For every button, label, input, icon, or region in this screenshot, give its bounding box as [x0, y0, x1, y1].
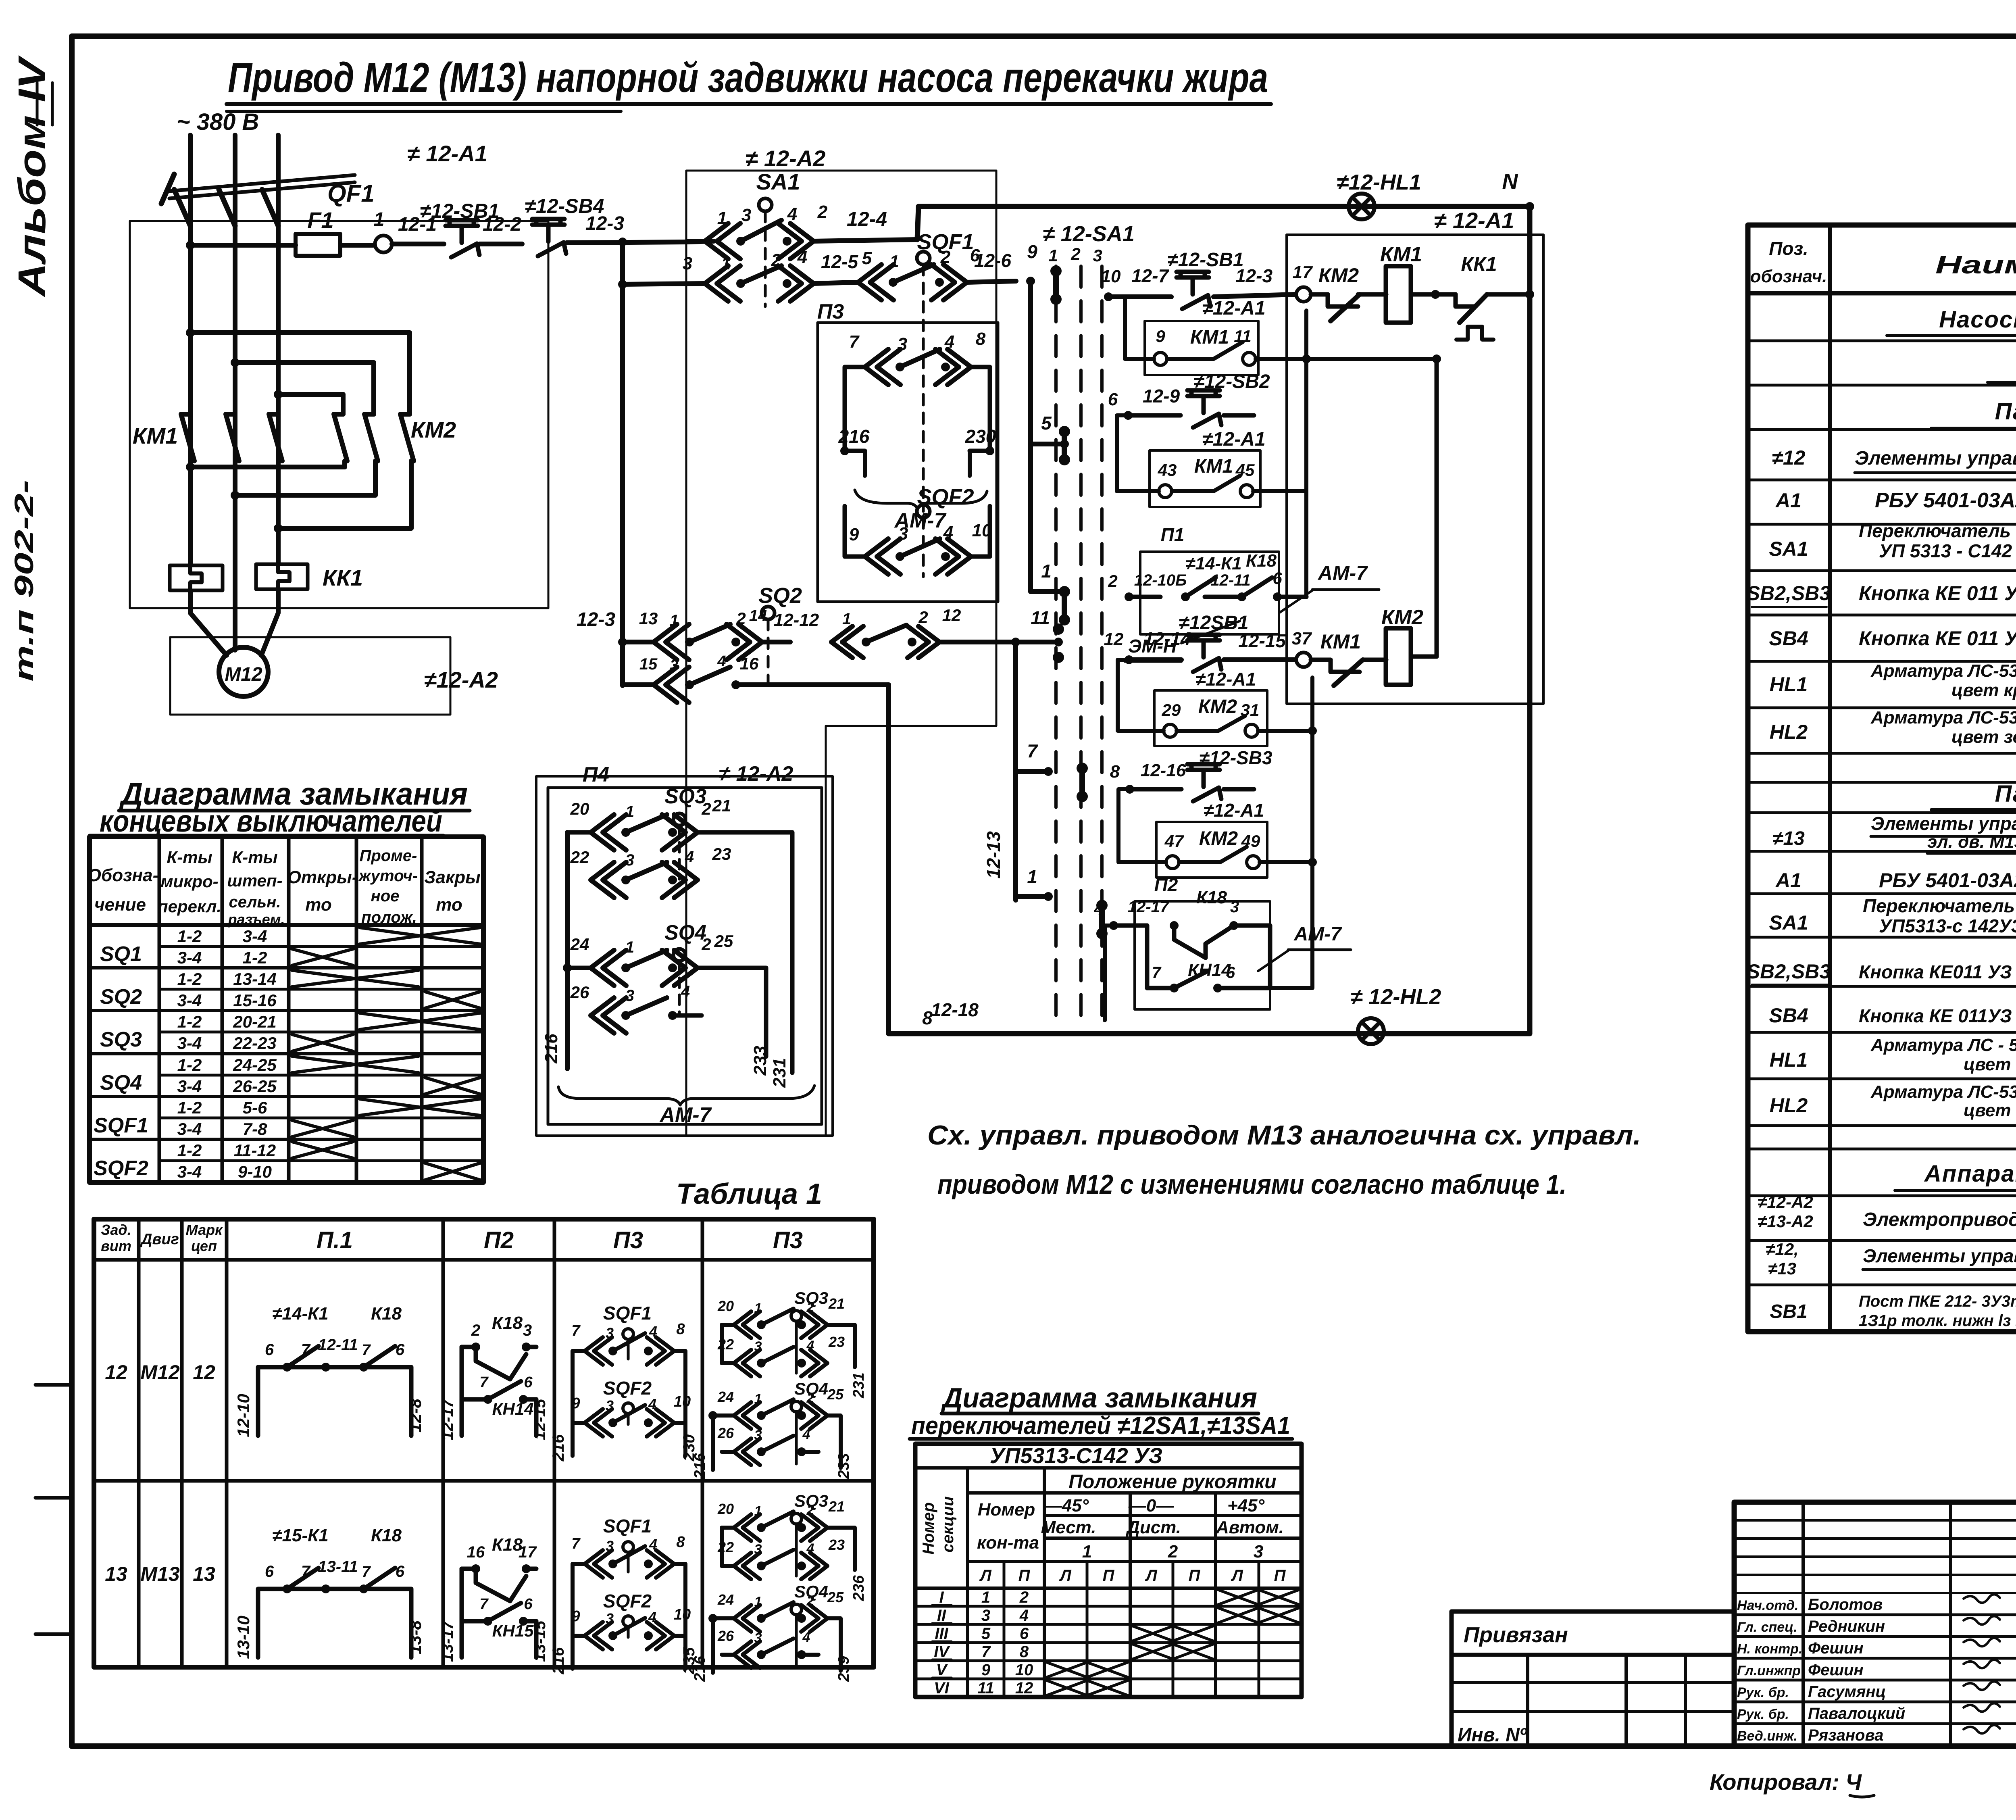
svg-text:2: 2	[1108, 571, 1117, 590]
svg-text:SQF2: SQF2	[603, 1378, 652, 1399]
svg-text:3-4: 3-4	[177, 1120, 202, 1138]
SA1 cam junction pair row4	[1053, 623, 1064, 663]
pushbutton SB1 (row 12-14)	[1179, 612, 1248, 672]
svg-text:П2: П2	[1154, 874, 1178, 895]
lamp HL2	[1351, 985, 1441, 1044]
svg-text:12-3: 12-3	[1235, 265, 1272, 286]
svg-text:9: 9	[1027, 241, 1037, 262]
П4 contact row 26	[570, 983, 702, 1033]
row А1 РБУ (2)	[1775, 869, 2016, 892]
fragment П2 row M13	[439, 1535, 549, 1662]
fragment П3 row M12	[550, 1303, 698, 1461]
svg-text:2: 2	[736, 609, 746, 628]
svg-text:7: 7	[301, 1563, 311, 1580]
row SB1 пост	[1770, 1293, 2016, 1330]
svg-text:П: П	[1018, 1567, 1031, 1584]
svg-text:3: 3	[754, 1542, 762, 1557]
limit switch SQF2 pin	[917, 485, 974, 577]
node N label	[1502, 169, 1535, 211]
svg-text:2: 2	[817, 202, 828, 222]
svg-text:микро-: микро-	[160, 872, 218, 891]
svg-text:РБУ 5401-03А2Ж: РБУ 5401-03А2Ж	[1875, 489, 2016, 512]
svg-text:КМ1: КМ1	[133, 423, 178, 448]
svg-text:1-2: 1-2	[243, 948, 267, 967]
selector ≠12-SA1 label	[1043, 222, 1135, 265]
label Таблица 1	[676, 1178, 822, 1210]
svg-text:КМ2: КМ2	[411, 417, 456, 442]
svg-text:216: 216	[691, 1655, 708, 1682]
svg-text:7: 7	[571, 1535, 581, 1552]
svg-text:26: 26	[570, 983, 589, 1002]
svg-text:Л: Л	[1059, 1567, 1072, 1584]
svg-text:SQ4: SQ4	[100, 1071, 142, 1095]
svg-text:1: 1	[889, 252, 899, 271]
svg-text:23: 23	[712, 844, 731, 863]
svg-text:216: 216	[550, 1434, 567, 1461]
aux contact box KM2 29-31	[1118, 660, 1312, 746]
svg-text:Рук. бр.: Рук. бр.	[1737, 1685, 1789, 1700]
limit switch table cross marks	[292, 928, 480, 1180]
thermal contact KK1	[1456, 253, 1534, 340]
svg-text:цеп: цеп	[191, 1238, 217, 1254]
node 1 (circle)	[374, 209, 392, 252]
svg-text:3: 3	[754, 1339, 762, 1354]
svg-text:12-10: 12-10	[234, 1394, 253, 1437]
svg-text:Закры: Закры	[424, 867, 481, 887]
svg-text:SA1: SA1	[1769, 538, 1808, 560]
wire 16 to bus	[886, 685, 891, 1034]
branch 1	[1031, 561, 1069, 596]
row 12-7: wire 10	[1101, 265, 1171, 301]
svg-text:SQF2: SQF2	[94, 1157, 148, 1180]
svg-text:3: 3	[898, 334, 907, 354]
П3 contact row 7-3-4-8	[845, 329, 990, 451]
row SB2,SB3 кнопка	[1747, 566, 2016, 607]
svg-text:Кнопка КЕ 011УЗ исполн. 2 толк: Кнопка КЕ 011УЗ исполн. 2 толк. красн.	[1859, 1005, 2016, 1026]
contactor KM2 main contacts	[334, 414, 456, 461]
box П4 inner	[548, 788, 822, 1124]
svg-text:SQ4: SQ4	[664, 921, 706, 944]
margin label: Альбом IV	[10, 55, 54, 298]
component table header	[1750, 238, 2016, 286]
svg-text:Насосная станция: Насосная станция	[1939, 306, 2016, 333]
svg-text:12: 12	[193, 1361, 215, 1384]
aux contact box KM2 47-49	[1118, 726, 1317, 878]
svg-text:КМ1: КМ1	[1190, 327, 1229, 348]
svg-text:2: 2	[806, 1300, 814, 1315]
svg-text:4: 4	[802, 1630, 810, 1645]
svg-text:1: 1	[1041, 561, 1052, 582]
svg-text:3: 3	[606, 1538, 614, 1554]
label АМ-7 (П2) leader	[1258, 924, 1351, 971]
svg-text:12-12: 12-12	[774, 610, 819, 630]
pushbutton contact ≠12-SB1	[420, 200, 500, 257]
svg-text:≠14-К1: ≠14-К1	[272, 1304, 328, 1324]
svg-text:12-15: 12-15	[1238, 630, 1286, 651]
svg-text:Гл.инжпр: Гл.инжпр	[1737, 1663, 1801, 1678]
svg-text:7: 7	[1027, 740, 1038, 761]
svg-text:6: 6	[1020, 1625, 1029, 1643]
svg-text:12-11: 12-11	[1210, 571, 1250, 589]
section Панель 7	[1931, 781, 2016, 810]
svg-text:10: 10	[1015, 1661, 1033, 1679]
box П4 outer Ф12-А2	[536, 762, 833, 1136]
limit switch SQF1 pin	[917, 230, 974, 511]
selector switch SA1 pin	[756, 169, 800, 306]
svg-text:УП5313-с 142УЗ рев.: УП5313-с 142УЗ рев.	[1879, 915, 2016, 936]
svg-text:разъем.: разъем.	[228, 911, 285, 928]
svg-text:SB2,SB3: SB2,SB3	[1747, 960, 1831, 983]
svg-text:II: II	[937, 1607, 946, 1624]
svg-text:4: 4	[806, 1338, 814, 1353]
svg-text:≠12-А1: ≠12-А1	[1195, 669, 1256, 690]
svg-text:21: 21	[712, 796, 731, 815]
АМ-7 brace under П4	[558, 1086, 814, 1127]
wire 12-3 right	[1214, 265, 1295, 297]
svg-text:2: 2	[806, 1593, 814, 1609]
svg-text:1-2: 1-2	[177, 927, 202, 946]
svg-text:239: 239	[835, 1656, 852, 1682]
wire: KM2 outputs join phases	[186, 461, 411, 533]
svg-text:К-ты: К-ты	[232, 848, 277, 867]
svg-text:8: 8	[676, 1534, 685, 1551]
table 1 grid	[94, 1219, 874, 1667]
SA1 cam junction pair row1	[1050, 265, 1062, 305]
svg-text:12-15: 12-15	[531, 1399, 549, 1440]
svg-text:≠12-А1: ≠12-А1	[1202, 429, 1265, 450]
svg-text:Электропривод задвижки ~380В: Электропривод задвижки ~380В	[1863, 1209, 2016, 1230]
svg-text:SQ2: SQ2	[100, 985, 142, 1009]
svg-text:20: 20	[570, 799, 589, 818]
svg-text:3: 3	[625, 851, 634, 869]
svg-text:11-12: 11-12	[234, 1141, 276, 1160]
wire П2 to bottom bus	[1270, 858, 1317, 988]
svg-text:7: 7	[1152, 964, 1162, 982]
row А1 РБУ	[1775, 489, 2016, 512]
svg-text:23: 23	[828, 1334, 845, 1350]
svg-text:SQ3: SQ3	[100, 1028, 142, 1051]
svg-text:приводом М12 с изменениями сог: приводом М12 с изменениями согласно табл…	[937, 1169, 1566, 1200]
svg-text:Вед.инж.: Вед.инж.	[1737, 1728, 1797, 1744]
contactor KM1 main contacts	[133, 245, 282, 528]
svg-text:1-2: 1-2	[177, 1055, 202, 1074]
svg-text:12-2: 12-2	[483, 214, 521, 235]
svg-text:то: то	[305, 895, 331, 915]
svg-text:12-17: 12-17	[439, 1398, 456, 1440]
SA1 cam junction pair row6	[1096, 900, 1108, 939]
svg-text:20-21: 20-21	[233, 1012, 276, 1031]
svg-text:КМ2: КМ2	[1198, 696, 1237, 717]
svg-text:12: 12	[1104, 630, 1124, 649]
svg-text:SA1: SA1	[756, 169, 800, 194]
svg-text:25: 25	[827, 1386, 844, 1403]
svg-text:Автом.: Автом.	[1216, 1518, 1284, 1537]
svg-text:+45°: +45°	[1227, 1496, 1265, 1516]
svg-text:Кнопка КЕ 011 УЗ: Кнопка КЕ 011 УЗ	[1859, 582, 2016, 605]
fuse F1	[190, 207, 375, 256]
svg-text:24: 24	[717, 1591, 734, 1608]
svg-text:≠12-А1: ≠12-А1	[1202, 298, 1265, 319]
svg-text:1: 1	[374, 209, 385, 230]
thin box Ф12-А1 (right control)	[1287, 208, 1543, 704]
svg-text:КМ1: КМ1	[1194, 456, 1233, 477]
phase wires L1 L2 L3	[190, 135, 278, 226]
title block frame	[1734, 1502, 2016, 1746]
svg-text:3-4: 3-4	[177, 1162, 202, 1181]
block П2 (К18/КН14)	[1093, 874, 1270, 1020]
svg-text:15-16: 15-16	[233, 991, 277, 1010]
contact row 12-4 (SA1 top)	[687, 202, 917, 259]
svg-text:3: 3	[606, 1397, 614, 1414]
svg-text:Редникин: Редникин	[1808, 1618, 1885, 1635]
svg-text:6: 6	[1108, 390, 1118, 409]
branch 5	[1031, 413, 1069, 448]
svg-text:7: 7	[362, 1342, 371, 1359]
svg-text:К18: К18	[492, 1313, 523, 1333]
svg-text:3: 3	[606, 1610, 614, 1627]
svg-text:Наименование: Наименование	[1935, 251, 2016, 279]
svg-text:Арматура ЛС-53 V 220В: Арматура ЛС-53 V 220В	[1870, 1082, 2016, 1102]
svg-text:секции: секции	[939, 1496, 957, 1552]
section Аппаратура по месту	[1895, 1161, 2016, 1190]
svg-text:VI: VI	[934, 1679, 950, 1697]
svg-text:≠12: ≠12	[1772, 446, 1805, 469]
svg-text:12-18: 12-18	[931, 999, 979, 1020]
svg-text:23: 23	[828, 1536, 845, 1553]
svg-text:22: 22	[570, 848, 589, 867]
title block staff grid	[1734, 1502, 2016, 1746]
svg-text:231: 231	[850, 1372, 867, 1398]
svg-text:12-3: 12-3	[585, 213, 624, 234]
svg-text:17: 17	[1293, 263, 1313, 282]
svg-text:Л: Л	[1231, 1567, 1243, 1584]
svg-text:1-2: 1-2	[177, 969, 202, 988]
row Ф13 elements M13	[1772, 813, 2016, 853]
svg-text:13-11: 13-11	[318, 1558, 358, 1576]
svg-text:13: 13	[193, 1563, 215, 1585]
svg-text:12-7: 12-7	[1131, 265, 1169, 286]
svg-text:ное: ное	[371, 887, 400, 905]
row SA1 переключатель	[1769, 520, 2016, 561]
svg-text:Панель 7: Панель 7	[1995, 781, 2016, 807]
svg-text:КМ1: КМ1	[1320, 630, 1361, 653]
svg-text:26: 26	[717, 1628, 734, 1644]
svg-text:12-9: 12-9	[1143, 386, 1180, 407]
svg-text:≠12-SB1: ≠12-SB1	[1167, 249, 1243, 271]
table 1 row designators	[105, 1361, 215, 1585]
svg-text:4: 4	[648, 1396, 656, 1412]
svg-text:13-17: 13-17	[439, 1620, 456, 1662]
svg-text:АМ-7: АМ-7	[659, 1103, 712, 1127]
svg-text:≠12-А1: ≠12-А1	[1204, 800, 1264, 821]
row Ф12 elements M12	[1772, 446, 2016, 473]
section: Насосная станция	[1887, 306, 2016, 428]
svg-text:HL1: HL1	[1770, 1049, 1808, 1071]
svg-text:цвет красн.: цвет красн.	[1964, 1055, 2016, 1074]
svg-text:SB1: SB1	[1770, 1301, 1807, 1322]
svg-text:4: 4	[648, 1609, 656, 1625]
привязан block	[1452, 1612, 1734, 1746]
svg-text:1: 1	[670, 612, 679, 630]
svg-text:1: 1	[625, 938, 634, 956]
svg-text:переключателей ≠12SA1,≠13SA1: переключателей ≠12SA1,≠13SA1	[911, 1412, 1290, 1440]
svg-text:Кнопка КЕ 011 УЗ: Кнопка КЕ 011 УЗ	[1859, 627, 2016, 650]
svg-text:1: 1	[842, 610, 851, 628]
svg-text:7: 7	[301, 1341, 311, 1359]
fragment П3б row M12	[691, 1288, 867, 1479]
svg-text:М12: М12	[140, 1361, 179, 1384]
svg-text:2: 2	[806, 1503, 814, 1518]
svg-text:—0—: —0—	[1128, 1496, 1174, 1516]
svg-text:П.1: П.1	[317, 1227, 353, 1253]
svg-text:П1: П1	[1161, 524, 1185, 545]
svg-text:6: 6	[524, 1374, 533, 1391]
svg-text:1: 1	[754, 1594, 762, 1609]
svg-text:КК1: КК1	[323, 565, 363, 590]
svg-text:≠ 12-А2: ≠ 12-А2	[719, 762, 793, 786]
svg-text:12-10Б: 12-10Б	[1134, 571, 1187, 589]
svg-text:Сх. управл. приводом М13 анало: Сх. управл. приводом М13 аналогична сх. …	[927, 1120, 1641, 1151]
svg-text:жуточ-: жуточ-	[358, 867, 418, 885]
pushbutton SB3 row	[1110, 747, 1272, 801]
svg-text:1-2: 1-2	[177, 1141, 202, 1160]
svg-text:КН14: КН14	[492, 1399, 534, 1418]
svg-text:2: 2	[806, 1391, 814, 1406]
svg-text:2: 2	[471, 1322, 480, 1339]
svg-text:13-14: 13-14	[233, 969, 276, 988]
wire to top bus	[917, 206, 1530, 240]
drawing title	[227, 54, 1271, 111]
svg-text:7: 7	[362, 1564, 371, 1580]
svg-text:12-3: 12-3	[577, 609, 615, 630]
svg-text:П: П	[1189, 1567, 1201, 1584]
wire 12-15 node 37	[1224, 629, 1312, 667]
svg-text:9: 9	[1156, 327, 1165, 346]
svg-text:Проме-: Проме-	[360, 847, 417, 865]
svg-text:Н. контр.: Н. контр.	[1737, 1641, 1802, 1657]
row SB4 кнопка	[1769, 611, 2016, 650]
svg-text:полож.: полож.	[361, 909, 417, 926]
svg-text:Арматура ЛС-53 V 220В: Арматура ЛС-53 V 220В	[1870, 661, 2016, 681]
svg-text:П3: П3	[817, 300, 844, 323]
svg-text:обознач.: обознач.	[1750, 267, 1827, 286]
svg-text:≠ 12-А2: ≠ 12-А2	[746, 146, 826, 171]
svg-text:Элементы управления: Элементы управления	[1871, 813, 2016, 834]
svg-text:13-15: 13-15	[531, 1620, 549, 1662]
contactor coil KM1	[1380, 243, 1456, 323]
circuit breaker QF1	[161, 174, 375, 226]
svg-text:то: то	[436, 895, 462, 915]
wire KM2 coil to aux chain	[1282, 354, 1441, 657]
svg-text:Фешин: Фешин	[1808, 1661, 1864, 1679]
svg-text:13-8: 13-8	[406, 1620, 425, 1654]
svg-text:≠12,: ≠12,	[1766, 1240, 1798, 1259]
svg-text:6: 6	[1272, 569, 1282, 588]
svg-text:Поз.: Поз.	[1769, 238, 1808, 259]
svg-text:М13: М13	[140, 1563, 179, 1585]
svg-text:6: 6	[265, 1563, 274, 1580]
svg-text:SQ3: SQ3	[664, 785, 706, 808]
SA1 cam junction pair row5	[1077, 763, 1088, 802]
row HL2 (2)	[1770, 1082, 2016, 1120]
svg-text:4: 4	[802, 1427, 810, 1442]
svg-text:11: 11	[1031, 607, 1050, 628]
svg-text:Нач.отд.: Нач.отд.	[1737, 1598, 1798, 1613]
svg-text:SQF1: SQF1	[94, 1114, 148, 1137]
svg-text:21: 21	[828, 1295, 845, 1312]
svg-text:Элементы управления эл. дв. М1: Элементы управления эл. дв. М12,М13	[1863, 1245, 2016, 1266]
pushbutton SB1 (row 12-7)	[1167, 249, 1243, 309]
svg-text:236: 236	[850, 1575, 867, 1601]
row 12-14 wire 12	[1104, 628, 1191, 664]
svg-text:≠ 12-HL2: ≠ 12-HL2	[1351, 985, 1441, 1009]
svg-text:РБУ 5401-03А2Ж: РБУ 5401-03А2Ж	[1879, 869, 2016, 892]
svg-text:Дист.: Дист.	[1125, 1518, 1181, 1537]
svg-text:Переключатель: Переключатель	[1863, 895, 2015, 916]
УП5313 table rows	[932, 1589, 1033, 1697]
П3 contact row 9-3-4-10	[845, 506, 992, 574]
svg-text:≠ 12-А1: ≠ 12-А1	[407, 141, 487, 166]
svg-text:7: 7	[479, 1374, 489, 1391]
svg-text:Диаграмма замыкания: Диаграмма замыкания	[941, 1382, 1257, 1413]
limit switch table header text	[87, 847, 481, 928]
svg-text:F1: F1	[307, 207, 333, 233]
svg-text:Л: Л	[979, 1567, 992, 1584]
svg-text:SQF1: SQF1	[603, 1516, 652, 1536]
svg-text:Переключатель: Переключатель	[1859, 520, 2011, 541]
svg-text:≠13-А2: ≠13-А2	[1758, 1212, 1813, 1231]
svg-text:12-17: 12-17	[1128, 898, 1170, 916]
svg-text:4: 4	[681, 983, 690, 1001]
svg-text:чение: чение	[94, 895, 146, 915]
svg-text:SB2,SB3: SB2,SB3	[1747, 582, 1831, 605]
копировал note	[1710, 1769, 1874, 1797]
svg-text:П2: П2	[484, 1227, 514, 1253]
svg-text:8: 8	[976, 329, 986, 349]
switch SQ3 pin	[664, 785, 706, 879]
svg-text:1: 1	[721, 254, 730, 273]
svg-text:1-2: 1-2	[177, 1098, 202, 1117]
svg-text:37: 37	[1292, 629, 1312, 648]
svg-text:25: 25	[714, 932, 733, 951]
contactor coil KM2	[1381, 606, 1437, 685]
svg-text:8: 8	[676, 1321, 685, 1338]
svg-text:1-2: 1-2	[177, 1012, 202, 1031]
svg-text:SQ1: SQ1	[100, 942, 142, 966]
svg-text:5: 5	[981, 1625, 991, 1643]
svg-text:26: 26	[717, 1425, 734, 1441]
АМ-7 brace in П3	[855, 490, 987, 532]
SA1 cam junction pair row3	[1059, 586, 1070, 625]
svg-text:М12: М12	[225, 664, 262, 685]
svg-text:13-10: 13-10	[234, 1616, 253, 1659]
svg-text:≠12-HL1: ≠12-HL1	[1337, 170, 1421, 194]
top bus lamp HL1	[1337, 170, 1421, 219]
svg-text:Альбом IV: Альбом IV	[10, 55, 54, 298]
svg-text:Мест.: Мест.	[1041, 1518, 1096, 1537]
svg-text:HL2: HL2	[1770, 721, 1808, 743]
svg-text:Кнопка КЕ011 УЗ исполн 2 толк.: Кнопка КЕ011 УЗ исполн 2 толк. черн	[1859, 961, 2016, 982]
contact row 12-12 (SQ2)	[577, 606, 1063, 660]
margin label: т.п 902-2-	[9, 480, 39, 682]
svg-text:≠14-К1: ≠14-К1	[1185, 554, 1241, 573]
branch 4	[1016, 866, 1053, 901]
svg-text:SQF2: SQF2	[603, 1591, 652, 1612]
svg-text:АМ-7: АМ-7	[1317, 562, 1368, 584]
svg-text:231: 231	[770, 1058, 789, 1088]
svg-text:кон-та: кон-та	[977, 1533, 1039, 1553]
svg-text:3: 3	[981, 1607, 990, 1624]
